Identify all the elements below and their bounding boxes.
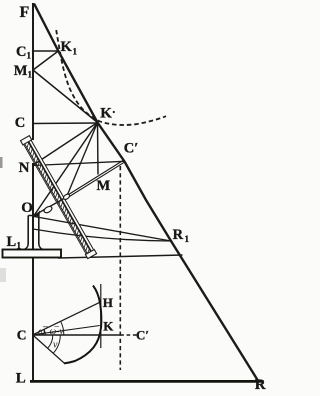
line O-K (34, 123, 98, 216)
inset lower angle arc r20 (48, 335, 53, 348)
svg-text:1: 1 (28, 70, 33, 80)
svg-text:L: L (7, 234, 17, 250)
line O-clamp (34, 197, 67, 216)
pedestal feet (24, 244, 43, 250)
svg-text:1: 1 (17, 241, 22, 251)
inset line C-H (33, 303, 100, 335)
svg-text:M: M (14, 63, 28, 79)
line K-M vertical (97, 123, 100, 175)
inset mirror arc (64, 286, 101, 364)
line M1-K (33, 70, 98, 123)
rod C'-M-clamp (double line) (66, 160, 125, 198)
clamp circle (63, 193, 71, 200)
line N-K (33, 123, 98, 166)
svg-text:C: C (17, 328, 27, 343)
inset lower angle arc r27.5 (53, 335, 60, 353)
eyepiece knob ellipse (43, 205, 53, 214)
inset middle line (33, 326, 100, 335)
inset axis C-K solid (33, 334, 121, 336)
svg-text:R: R (173, 227, 184, 243)
node R1 (170, 240, 172, 242)
svg-text:K: K (61, 39, 73, 55)
inset angle arc r12.5 (omega) (44, 329, 45, 334)
svg-text:1: 1 (73, 47, 78, 57)
vertical line F-L upper (32, 3, 34, 140)
svg-text:C: C (16, 44, 26, 60)
dashed vertical line below C' (119, 166, 121, 370)
line N-C' (33, 161, 125, 165)
pivot blob at O (34, 211, 41, 217)
svg-text:N: N (19, 160, 30, 176)
inset lower line C-arc bottom (33, 335, 65, 363)
line post-R1 (33, 229, 171, 241)
svg-text:C′: C′ (124, 141, 139, 157)
INSET: vertical hairline through H,K (100, 284, 102, 348)
line K1-M1 (33, 51, 58, 70)
svg-text:O: O (21, 200, 33, 216)
svg-text:C′: C′ (136, 327, 149, 342)
inset angle arc r31 (omega-nu) (61, 321, 64, 335)
svg-text:F: F (20, 4, 30, 21)
dashed curve (Rowland circle) (56, 30, 166, 125)
hypotenuse F-R (34, 4, 259, 382)
vertical line F-L lower (32, 163, 34, 382)
line C1-K1 (33, 50, 58, 52)
svg-text:R: R (255, 377, 266, 391)
long base line to hypotenuse (58, 255, 183, 258)
line clamp-K (67, 123, 98, 198)
svg-text:1: 1 (27, 51, 32, 61)
svg-text:K: K (100, 106, 112, 122)
svg-text:1: 1 (185, 234, 190, 244)
line C-K (33, 122, 98, 125)
line O-R1 (34, 217, 171, 242)
inset axis K-C' dashed (120, 334, 137, 336)
svg-text:M: M (97, 178, 111, 194)
dot after K (113, 111, 115, 113)
svg-text:H: H (103, 295, 113, 310)
svg-text:ω̅-ν: ω̅-ν (50, 326, 65, 337)
pedestal slab (3, 250, 62, 258)
svg-text:ν: ν (53, 340, 58, 351)
left edge smudge 2 (0, 268, 6, 282)
bottom line L-R (30, 380, 264, 383)
svg-text:L: L (16, 370, 26, 386)
beam (grating bar) (20, 136, 96, 259)
svg-text:K: K (103, 318, 114, 333)
pedestal post (28, 216, 39, 245)
svg-text:C: C (15, 115, 25, 131)
left edge smudge 1 (0, 157, 3, 168)
